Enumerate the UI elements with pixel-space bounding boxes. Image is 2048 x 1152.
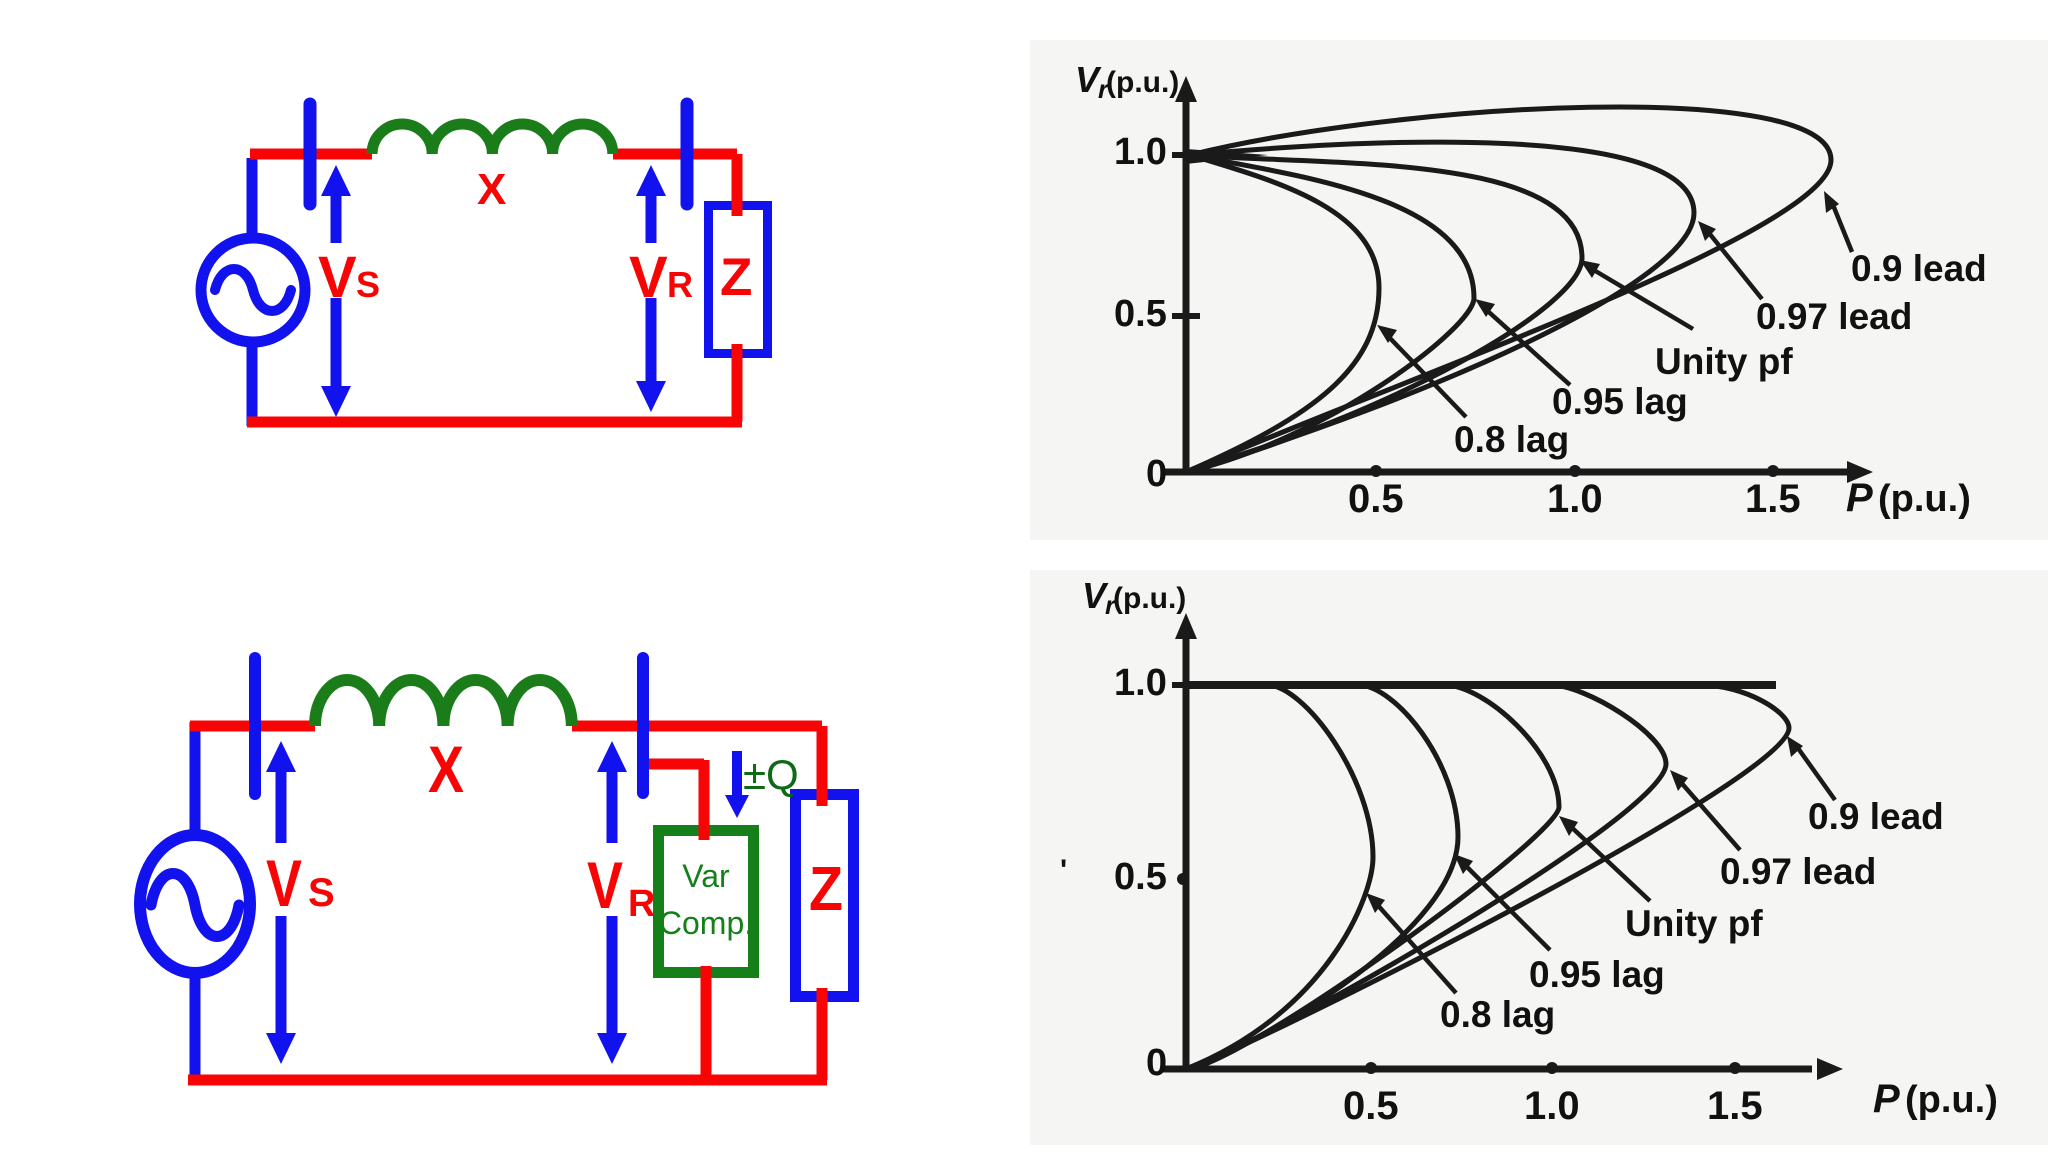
svg-text:Var: Var bbox=[682, 858, 730, 894]
svg-text:V: V bbox=[629, 245, 668, 310]
svg-text:0.5: 0.5 bbox=[1348, 477, 1404, 521]
svg-text:Unity pf: Unity pf bbox=[1655, 341, 1793, 382]
svg-text:0.97 lead: 0.97 lead bbox=[1756, 296, 1912, 337]
svg-text:S: S bbox=[308, 871, 335, 915]
svg-text:V: V bbox=[587, 848, 623, 922]
svg-text:1.0: 1.0 bbox=[1114, 131, 1167, 173]
svg-text:R: R bbox=[628, 883, 655, 925]
svg-text:0.95 lag: 0.95 lag bbox=[1529, 954, 1665, 995]
svg-text:0.5: 0.5 bbox=[1343, 1084, 1399, 1128]
svg-text:±Q: ±Q bbox=[743, 751, 799, 798]
svg-text:0.5: 0.5 bbox=[1114, 856, 1167, 898]
svg-text:X: X bbox=[477, 165, 506, 214]
svg-text:Comp.: Comp. bbox=[659, 905, 753, 941]
svg-text:1.0: 1.0 bbox=[1547, 477, 1603, 521]
svg-text:P: P bbox=[1846, 476, 1873, 520]
svg-text:0.95 lag: 0.95 lag bbox=[1552, 381, 1688, 422]
svg-text:1.5: 1.5 bbox=[1707, 1084, 1763, 1128]
svg-text:Unity pf: Unity pf bbox=[1625, 903, 1763, 944]
svg-text:(p.u.): (p.u.) bbox=[1905, 1079, 1998, 1121]
svg-text:Z: Z bbox=[720, 248, 752, 307]
svg-text:(p.u.): (p.u.) bbox=[1113, 582, 1186, 615]
svg-text:0: 0 bbox=[1146, 1042, 1167, 1084]
svg-text:0.9 lead: 0.9 lead bbox=[1808, 796, 1944, 837]
svg-text:0.8 lag: 0.8 lag bbox=[1440, 994, 1555, 1035]
svg-text:V: V bbox=[318, 245, 357, 310]
svg-text:1.0: 1.0 bbox=[1524, 1084, 1580, 1128]
svg-text:0.5: 0.5 bbox=[1114, 293, 1167, 335]
svg-text:Z: Z bbox=[809, 855, 843, 924]
svg-text:0.97 lead: 0.97 lead bbox=[1720, 851, 1876, 892]
svg-text:(p.u.): (p.u.) bbox=[1106, 66, 1179, 99]
svg-text:0: 0 bbox=[1146, 453, 1167, 495]
svg-text:(p.u.): (p.u.) bbox=[1878, 478, 1971, 520]
svg-text:1.5: 1.5 bbox=[1745, 477, 1801, 521]
svg-text:1.0: 1.0 bbox=[1114, 662, 1167, 704]
svg-text:0.8 lag: 0.8 lag bbox=[1454, 419, 1569, 460]
svg-text:R: R bbox=[667, 264, 693, 305]
svg-text:0.9 lead: 0.9 lead bbox=[1851, 248, 1987, 289]
svg-text:': ' bbox=[1060, 854, 1067, 887]
svg-text:S: S bbox=[356, 264, 380, 305]
svg-text:V: V bbox=[266, 846, 302, 920]
svg-text:X: X bbox=[428, 732, 464, 806]
svg-text:P: P bbox=[1873, 1077, 1900, 1121]
